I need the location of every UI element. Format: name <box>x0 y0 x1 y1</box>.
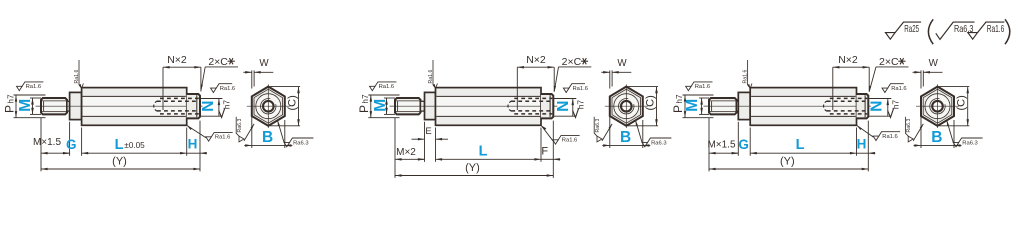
svg-text:Ra1.6: Ra1.6 <box>215 135 230 141</box>
svg-text:L: L <box>796 137 805 153</box>
svg-text:M: M <box>372 99 389 112</box>
svg-text:Ra6.3: Ra6.3 <box>237 119 243 133</box>
svg-text:H: H <box>857 137 867 152</box>
svg-text:Ra1.6: Ra1.6 <box>562 138 577 144</box>
svg-text:B: B <box>931 129 942 146</box>
svg-text:N: N <box>868 101 885 112</box>
svg-text:M×2: M×2 <box>396 147 416 158</box>
svg-text:Ra1.6: Ra1.6 <box>26 84 41 90</box>
svg-text:h7: h7 <box>222 100 232 110</box>
svg-text:Ra1.6: Ra1.6 <box>891 86 906 92</box>
svg-text:L: L <box>479 143 488 159</box>
svg-text:W: W <box>929 58 939 69</box>
svg-text:N×2: N×2 <box>838 54 858 66</box>
svg-text:N: N <box>555 101 572 112</box>
svg-text:M: M <box>17 99 34 112</box>
svg-text:Ra1.6: Ra1.6 <box>573 86 588 92</box>
svg-text:Ra1.6: Ra1.6 <box>695 84 710 90</box>
svg-text:Ra1.6: Ra1.6 <box>428 70 434 84</box>
svg-text:2×C: 2×C <box>562 56 582 68</box>
svg-text:N: N <box>200 101 217 112</box>
svg-text:Ra1.6: Ra1.6 <box>742 70 748 84</box>
svg-text:Ra6.3: Ra6.3 <box>954 23 974 35</box>
svg-text:(Y): (Y) <box>465 162 480 174</box>
svg-text:Ra1.6: Ra1.6 <box>74 70 80 84</box>
svg-text:2×C: 2×C <box>208 56 228 68</box>
svg-text:(C): (C) <box>645 95 657 110</box>
svg-text:Ra1.6: Ra1.6 <box>379 84 394 90</box>
svg-text:W: W <box>259 58 269 69</box>
svg-text:G: G <box>66 137 77 152</box>
svg-text:Ra1.6: Ra1.6 <box>882 134 897 140</box>
svg-text:Ra1.6: Ra1.6 <box>220 86 235 92</box>
svg-text:W: W <box>617 58 627 69</box>
svg-text:M: M <box>684 99 701 112</box>
svg-text:(Y): (Y) <box>780 155 795 167</box>
svg-text:(C): (C) <box>287 95 299 110</box>
svg-text:h7: h7 <box>575 100 585 110</box>
svg-text:Ra6.3: Ra6.3 <box>595 119 601 133</box>
svg-text:Ra6.3: Ra6.3 <box>906 119 912 133</box>
svg-text:Ra25: Ra25 <box>904 23 919 35</box>
svg-text:H: H <box>188 137 198 152</box>
svg-text:(C): (C) <box>956 95 968 110</box>
svg-text:Ra6.3: Ra6.3 <box>293 140 308 146</box>
svg-text:G: G <box>738 137 749 152</box>
svg-text:2×C: 2×C <box>879 56 899 68</box>
svg-text:B: B <box>620 129 631 146</box>
svg-text:±0.05: ±0.05 <box>124 141 145 150</box>
svg-text:Ra6.3: Ra6.3 <box>962 140 977 146</box>
svg-text:(Y): (Y) <box>112 155 127 167</box>
svg-text:Ra6.3: Ra6.3 <box>651 140 666 146</box>
svg-text:N×2: N×2 <box>167 54 187 66</box>
svg-text:N×2: N×2 <box>526 54 546 66</box>
svg-text:B: B <box>262 129 273 146</box>
svg-text:L: L <box>115 137 124 153</box>
svg-text:h7: h7 <box>890 100 900 110</box>
svg-text:Ra1.6: Ra1.6 <box>987 23 1005 35</box>
svg-text:E: E <box>425 126 431 137</box>
svg-text:M×1.5: M×1.5 <box>33 137 62 148</box>
svg-text:M×1.5: M×1.5 <box>707 139 736 150</box>
svg-text:F: F <box>541 146 548 158</box>
